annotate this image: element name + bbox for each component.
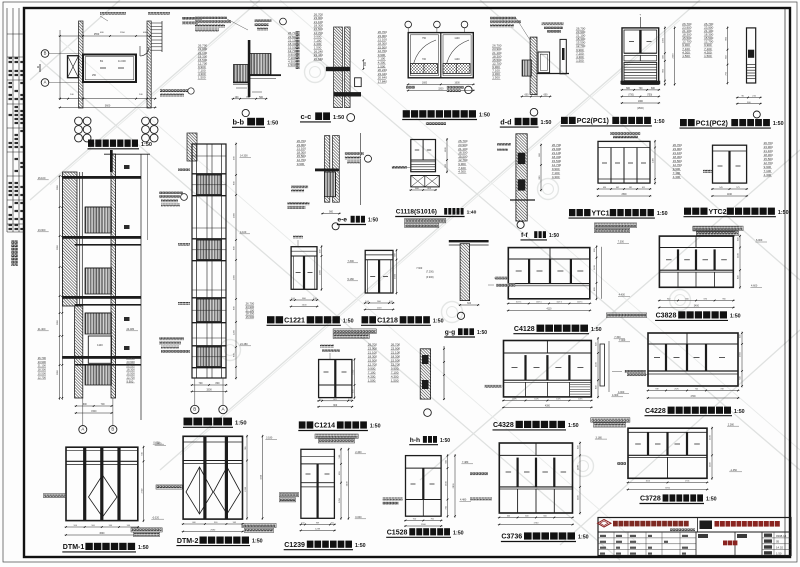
svg-text:1:50: 1:50 xyxy=(734,409,745,415)
svg-text:7.000: 7.000 xyxy=(619,339,626,342)
svg-text:4.300: 4.300 xyxy=(552,175,560,179)
svg-text:1100: 1100 xyxy=(454,37,460,40)
svg-text:3600: 3600 xyxy=(105,105,111,108)
svg-text:1:50: 1:50 xyxy=(252,539,263,545)
svg-text:3.180: 3.180 xyxy=(266,437,273,440)
svg-text:600: 600 xyxy=(525,516,528,518)
svg-text:2000: 2000 xyxy=(319,269,321,275)
svg-text:1.500: 1.500 xyxy=(391,378,399,382)
svg-text:1027.5: 1027.5 xyxy=(556,302,562,304)
svg-text:4300: 4300 xyxy=(545,406,551,408)
svg-text:6.000: 6.000 xyxy=(756,239,763,242)
svg-text:4.600: 4.600 xyxy=(751,285,758,288)
svg-text:1.500: 1.500 xyxy=(704,54,712,58)
svg-text:1.500: 1.500 xyxy=(576,59,584,63)
svg-text:14.02: 14.02 xyxy=(776,546,783,550)
svg-text:1:50: 1:50 xyxy=(657,211,668,217)
svg-text:1100: 1100 xyxy=(454,58,460,61)
svg-text:c-c: c-c xyxy=(301,112,312,121)
svg-text:e-e: e-e xyxy=(337,217,347,224)
svg-text:1:50: 1:50 xyxy=(578,535,589,541)
svg-text:800: 800 xyxy=(216,382,221,385)
svg-text:1100: 1100 xyxy=(377,308,382,310)
svg-text:7.480: 7.480 xyxy=(462,461,469,464)
svg-text:700: 700 xyxy=(199,382,204,385)
svg-text:1:50: 1:50 xyxy=(776,552,782,556)
svg-text:2800: 2800 xyxy=(57,244,59,250)
svg-text:7.300: 7.300 xyxy=(618,241,625,244)
svg-text:2575: 2575 xyxy=(674,389,678,391)
svg-text:C4328: C4328 xyxy=(493,422,514,429)
svg-text:708: 708 xyxy=(720,389,723,391)
svg-text:3700: 3700 xyxy=(665,488,671,490)
svg-text:(7.200): (7.200) xyxy=(426,271,434,274)
svg-text:1500: 1500 xyxy=(394,273,396,279)
svg-text:1:50: 1:50 xyxy=(440,438,450,444)
svg-text:2800: 2800 xyxy=(57,319,59,325)
svg-text:1500: 1500 xyxy=(91,411,97,413)
svg-text:C3736: C3736 xyxy=(501,534,522,541)
svg-text:2550: 2550 xyxy=(94,33,100,36)
svg-text:7.300: 7.300 xyxy=(348,260,355,263)
svg-text:4.300: 4.300 xyxy=(673,175,681,179)
svg-text:DTM-2: DTM-2 xyxy=(177,538,199,545)
svg-text:1:50: 1:50 xyxy=(654,119,665,125)
svg-text:11.600: 11.600 xyxy=(118,59,126,63)
svg-text:B1: B1 xyxy=(100,59,104,63)
svg-text:2500: 2500 xyxy=(621,194,627,196)
svg-text:21.400: 21.400 xyxy=(38,328,46,331)
svg-text:1027.5: 1027.5 xyxy=(536,302,542,304)
svg-text:2550: 2550 xyxy=(120,32,126,34)
svg-text:A: A xyxy=(44,80,47,85)
svg-text:23.900: 23.900 xyxy=(127,360,136,364)
svg-text:f-f: f-f xyxy=(521,232,528,239)
svg-text:C1214: C1214 xyxy=(314,423,335,430)
svg-text:4.480: 4.480 xyxy=(460,499,467,502)
svg-text:1:50: 1:50 xyxy=(453,530,464,536)
svg-text:B: B xyxy=(111,427,114,432)
svg-text:1:50: 1:50 xyxy=(235,420,247,426)
svg-text:A: A xyxy=(81,427,84,432)
svg-text:C1218: C1218 xyxy=(377,318,398,325)
svg-text:C1528: C1528 xyxy=(387,530,408,537)
svg-text:2800: 2800 xyxy=(453,483,455,489)
svg-text:26.700: 26.700 xyxy=(38,356,47,360)
svg-text:1.500: 1.500 xyxy=(288,63,296,67)
svg-text:4.000: 4.000 xyxy=(618,391,625,394)
svg-text:3600: 3600 xyxy=(99,533,105,535)
svg-text:20.640: 20.640 xyxy=(314,57,324,61)
svg-text:1075: 1075 xyxy=(512,399,516,401)
svg-text:(1500): (1500) xyxy=(637,108,644,110)
svg-text:1:50: 1:50 xyxy=(477,330,487,336)
svg-text:600: 600 xyxy=(544,516,547,518)
svg-text:21.100: 21.100 xyxy=(127,364,136,368)
svg-text:2800: 2800 xyxy=(57,184,59,190)
svg-text:1.500: 1.500 xyxy=(198,76,206,80)
svg-text:1600: 1600 xyxy=(422,83,428,85)
svg-text:4.400: 4.400 xyxy=(619,294,626,297)
svg-text:18.300: 18.300 xyxy=(38,368,47,372)
svg-text:600: 600 xyxy=(507,516,510,518)
svg-text:3400: 3400 xyxy=(694,306,700,308)
svg-text:2300: 2300 xyxy=(673,53,675,59)
svg-text:1:50: 1:50 xyxy=(778,210,789,216)
svg-text:g-g: g-g xyxy=(445,329,455,336)
svg-text:1600: 1600 xyxy=(455,83,461,85)
svg-text:B: B xyxy=(193,407,196,412)
svg-text:DTM-1: DTM-1 xyxy=(63,544,85,551)
svg-text:1:50: 1:50 xyxy=(730,314,741,320)
svg-text:(3.900): (3.900) xyxy=(426,276,434,279)
svg-text:13.300: 13.300 xyxy=(38,229,46,232)
svg-text:15.500: 15.500 xyxy=(246,315,255,319)
svg-text:05: 05 xyxy=(776,540,780,544)
svg-text:C4128: C4128 xyxy=(514,326,535,333)
svg-text:(750): (750) xyxy=(647,95,653,97)
svg-text:C1239: C1239 xyxy=(284,542,305,549)
svg-text:+: + xyxy=(639,13,641,17)
svg-text:1.500: 1.500 xyxy=(492,76,500,80)
svg-text:1075: 1075 xyxy=(556,399,560,401)
svg-text:0308-14: 0308-14 xyxy=(776,534,787,538)
svg-text:18.300: 18.300 xyxy=(127,368,136,372)
svg-text:d-d: d-d xyxy=(500,117,511,126)
svg-text:9.900: 9.900 xyxy=(297,162,305,166)
svg-text:4700: 4700 xyxy=(690,396,696,398)
svg-text:3.180: 3.180 xyxy=(596,436,603,439)
svg-text:1075: 1075 xyxy=(578,399,582,401)
svg-text:23.900: 23.900 xyxy=(38,360,47,364)
svg-text:(750): (750) xyxy=(628,95,634,97)
svg-text:1200: 1200 xyxy=(234,329,236,335)
svg-text:15.500: 15.500 xyxy=(38,372,47,376)
svg-text:1027.5: 1027.5 xyxy=(577,302,583,304)
svg-text:1400: 1400 xyxy=(653,157,655,163)
svg-text:1500: 1500 xyxy=(421,524,427,526)
svg-text:-1.450: -1.450 xyxy=(730,469,738,472)
svg-text:5.180: 5.180 xyxy=(348,278,355,281)
svg-text:YTC1: YTC1 xyxy=(592,210,610,217)
svg-text:2800: 2800 xyxy=(57,369,59,375)
svg-text:1:50: 1:50 xyxy=(141,142,152,148)
svg-text:1:50: 1:50 xyxy=(368,218,378,224)
svg-text:17.840: 17.840 xyxy=(378,80,388,84)
svg-text:PC2(PC1): PC2(PC1) xyxy=(577,118,609,125)
svg-text:16.100: 16.100 xyxy=(38,177,46,180)
svg-text:1:50: 1:50 xyxy=(591,327,602,333)
svg-text:a: a xyxy=(37,65,39,69)
svg-text:4.100: 4.100 xyxy=(240,231,247,234)
svg-text:750: 750 xyxy=(422,37,427,40)
svg-text:1027.5: 1027.5 xyxy=(516,302,522,304)
svg-text:1:50: 1:50 xyxy=(568,423,579,429)
svg-text:4.300: 4.300 xyxy=(458,170,466,174)
svg-text:900: 900 xyxy=(329,211,334,214)
svg-text:1000: 1000 xyxy=(663,37,665,43)
svg-text:21.100: 21.100 xyxy=(38,364,47,368)
svg-text:1500: 1500 xyxy=(206,389,212,392)
svg-text:0.000: 0.000 xyxy=(153,441,160,444)
svg-text:12.700: 12.700 xyxy=(38,375,47,379)
svg-text:1075: 1075 xyxy=(534,399,538,401)
svg-text:2000: 2000 xyxy=(234,274,236,280)
svg-text:26.700: 26.700 xyxy=(127,356,136,360)
svg-text:12.700: 12.700 xyxy=(127,375,136,379)
svg-text:1900: 1900 xyxy=(638,101,644,103)
svg-text:7.300: 7.300 xyxy=(416,267,423,270)
svg-text:3200: 3200 xyxy=(438,89,444,91)
svg-text:24.480: 24.480 xyxy=(240,343,248,346)
svg-text:14.300: 14.300 xyxy=(240,155,248,158)
svg-text:9.900: 9.900 xyxy=(127,379,134,383)
svg-text:1:40: 1:40 xyxy=(467,210,477,216)
svg-text:1239: 1239 xyxy=(315,529,321,531)
svg-text:b-b: b-b xyxy=(233,118,245,127)
svg-text:1:50: 1:50 xyxy=(267,120,278,126)
svg-text:1100: 1100 xyxy=(97,343,103,347)
svg-text:2.280: 2.280 xyxy=(728,423,735,426)
svg-text:4.300: 4.300 xyxy=(764,173,772,177)
svg-text:1:50: 1:50 xyxy=(773,121,784,127)
svg-text:1750: 1750 xyxy=(533,523,539,525)
svg-text:1:50: 1:50 xyxy=(549,233,559,239)
svg-text:1:50: 1:50 xyxy=(343,318,354,324)
svg-text:C1118(S1016): C1118(S1016) xyxy=(396,209,437,216)
svg-text:1:50: 1:50 xyxy=(138,545,149,551)
svg-text:1:50: 1:50 xyxy=(433,318,444,324)
svg-text:24.480: 24.480 xyxy=(127,328,135,331)
svg-text:2400: 2400 xyxy=(346,481,348,487)
svg-text:1000: 1000 xyxy=(445,147,447,153)
svg-text:1:50: 1:50 xyxy=(333,115,344,121)
svg-text:1:50: 1:50 xyxy=(541,120,552,126)
svg-text:C4228: C4228 xyxy=(645,408,666,415)
svg-text:PC1(PC2): PC1(PC2) xyxy=(696,120,728,127)
svg-text:1:50: 1:50 xyxy=(706,497,717,503)
svg-text:1:50: 1:50 xyxy=(370,424,381,430)
svg-text:-0.020: -0.020 xyxy=(152,516,160,519)
svg-text:1:50: 1:50 xyxy=(479,113,490,119)
svg-text:2000: 2000 xyxy=(234,212,236,218)
svg-text:1700: 1700 xyxy=(352,369,354,375)
svg-text:C3728: C3728 xyxy=(640,496,661,503)
svg-text:h-h: h-h xyxy=(410,437,420,444)
svg-text:250: 250 xyxy=(92,74,97,77)
svg-text:1190: 1190 xyxy=(727,194,733,196)
svg-text:B: B xyxy=(44,51,47,56)
svg-text:939: 939 xyxy=(655,389,658,391)
svg-text:C1221: C1221 xyxy=(284,318,305,325)
svg-text:YTC2: YTC2 xyxy=(709,209,727,216)
svg-text:4.300: 4.300 xyxy=(612,394,619,397)
svg-text:0.000: 0.000 xyxy=(355,516,362,519)
svg-text:900: 900 xyxy=(364,61,367,66)
svg-text:2580: 2580 xyxy=(210,530,216,532)
svg-text:15.500: 15.500 xyxy=(127,372,136,376)
svg-text:4110: 4110 xyxy=(547,309,553,311)
svg-text:1.500: 1.500 xyxy=(368,378,376,382)
svg-text:C3828: C3828 xyxy=(656,313,677,320)
svg-text:2.400: 2.400 xyxy=(355,451,362,454)
svg-text:700: 700 xyxy=(422,58,427,61)
svg-text:1000: 1000 xyxy=(302,305,308,307)
svg-text:1:50: 1:50 xyxy=(355,543,366,549)
svg-text:1.500: 1.500 xyxy=(682,54,690,58)
svg-text:705: 705 xyxy=(695,389,698,391)
